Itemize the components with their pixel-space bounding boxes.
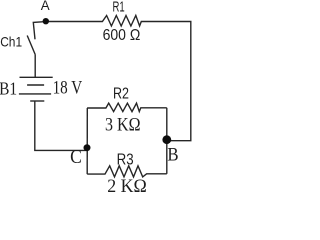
svg-text:3 KΩ: 3 KΩ — [105, 114, 141, 135]
svg-text:C: C — [70, 147, 82, 168]
svg-text:600 Ω: 600 Ω — [103, 27, 141, 44]
svg-text:2 KΩ: 2 KΩ — [107, 176, 147, 193]
svg-text:B1: B1 — [0, 79, 17, 99]
svg-text:R2: R2 — [113, 86, 129, 103]
svg-text:R1: R1 — [113, 0, 125, 15]
svg-text:A: A — [41, 0, 50, 13]
svg-text:B: B — [167, 144, 178, 165]
svg-text:18 V: 18 V — [53, 77, 83, 98]
svg-text:Ch1: Ch1 — [0, 33, 22, 49]
svg-text:R3: R3 — [117, 151, 134, 168]
